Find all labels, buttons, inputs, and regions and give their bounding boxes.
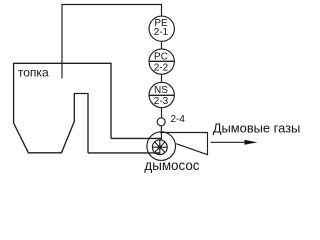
wire node 2-4 down to fan hub bbox=[160, 126, 162, 140]
furnace топка outline bbox=[14, 63, 111, 153]
svg-text:2-1: 2-1 bbox=[154, 27, 169, 38]
wire sensor line from furnace into PE 2-1 bbox=[62, 5, 162, 79]
flue duct top wall bbox=[111, 137, 162, 139]
fan outlet volute bbox=[160, 133, 208, 155]
flow arrow bbox=[211, 140, 258, 145]
instrument NS 2-3 bbox=[149, 82, 174, 107]
instrument PE 2-1 bbox=[149, 16, 174, 41]
svg-text:Дымовые газы: Дымовые газы bbox=[213, 121, 300, 136]
svg-text:2-3: 2-3 bbox=[154, 96, 169, 107]
svg-text:топка: топка bbox=[18, 66, 49, 80]
wire PE to PC bbox=[161, 42, 163, 49]
fan дымосос (smoke exhauster) bbox=[147, 132, 176, 161]
svg-text:NS: NS bbox=[154, 85, 168, 96]
wire PC to NS bbox=[161, 75, 163, 82]
node 2-4 (small circle) bbox=[157, 118, 165, 126]
wire NS to node 2-4 bbox=[161, 108, 163, 117]
flue duct bottom wall bbox=[88, 152, 160, 154]
instrument PC 2-2 bbox=[149, 49, 174, 74]
svg-text:PC: PC bbox=[154, 52, 168, 63]
svg-text:2-4: 2-4 bbox=[171, 114, 186, 125]
svg-text:дымосос: дымосос bbox=[144, 158, 199, 173]
svg-text:2-2: 2-2 bbox=[154, 62, 169, 73]
